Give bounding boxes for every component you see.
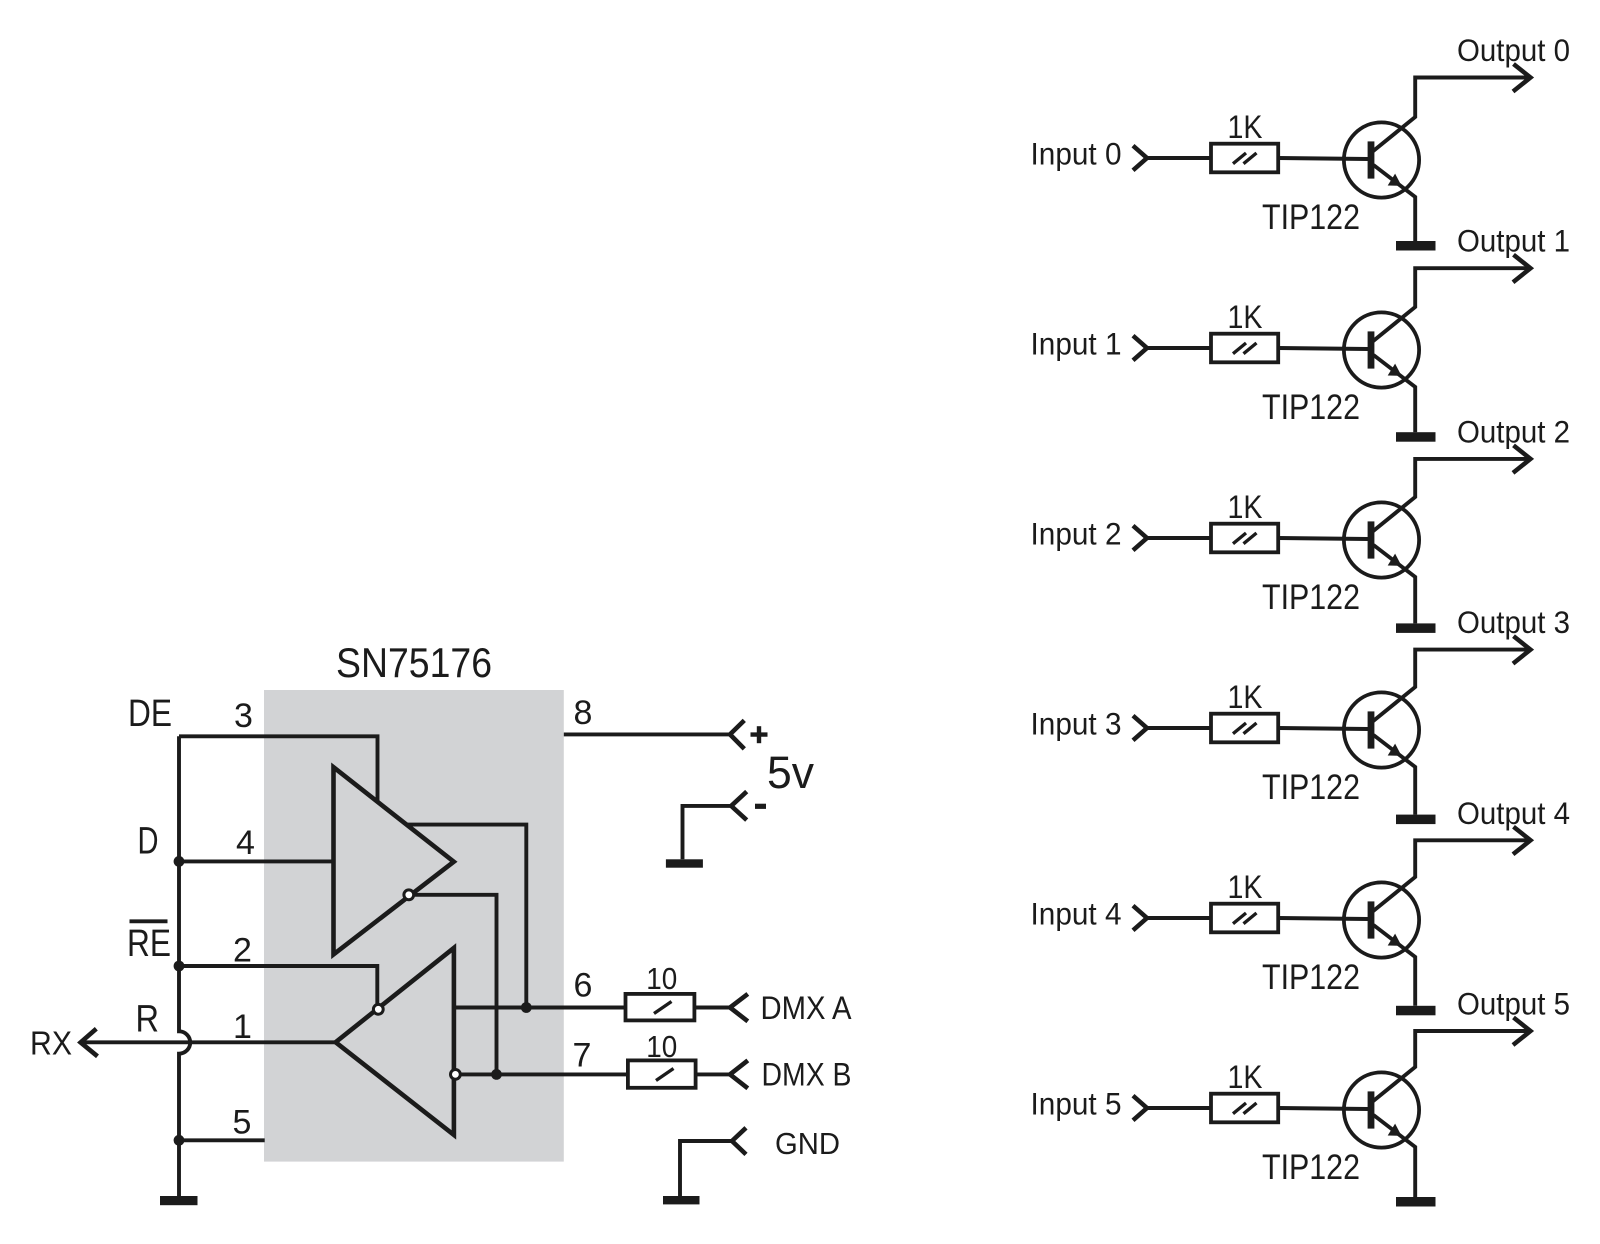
svg-text:Output 0: Output 0 xyxy=(1457,32,1570,68)
svg-text:Input 2: Input 2 xyxy=(1031,515,1122,551)
svg-text:Output 3: Output 3 xyxy=(1457,604,1570,640)
svg-text:5: 5 xyxy=(233,1103,252,1141)
svg-text:Output 4: Output 4 xyxy=(1457,795,1570,831)
svg-text:TIP122: TIP122 xyxy=(1262,578,1360,617)
svg-text:TIP122: TIP122 xyxy=(1262,958,1360,997)
svg-text:5v: 5v xyxy=(767,747,814,798)
svg-text:TIP122: TIP122 xyxy=(1262,198,1360,237)
svg-text:Output 5: Output 5 xyxy=(1457,986,1570,1022)
svg-text:Input 3: Input 3 xyxy=(1031,705,1122,741)
svg-text:Input 0: Input 0 xyxy=(1031,135,1122,171)
svg-text:1: 1 xyxy=(233,1008,252,1046)
svg-text:RE: RE xyxy=(127,923,171,965)
svg-text:Input 4: Input 4 xyxy=(1031,895,1122,931)
svg-text:Output 1: Output 1 xyxy=(1457,223,1570,259)
svg-text:SN75176: SN75176 xyxy=(336,639,492,686)
svg-text:RX: RX xyxy=(30,1024,72,1061)
svg-text:4: 4 xyxy=(236,824,255,862)
svg-text:8: 8 xyxy=(574,694,593,732)
svg-text:TIP122: TIP122 xyxy=(1262,768,1360,807)
svg-text:1K: 1K xyxy=(1228,1059,1263,1095)
svg-text:7: 7 xyxy=(573,1036,592,1074)
svg-text:1K: 1K xyxy=(1228,679,1263,715)
svg-text:Input 5: Input 5 xyxy=(1031,1085,1122,1121)
svg-text:TIP122: TIP122 xyxy=(1262,1148,1360,1187)
svg-text:TIP122: TIP122 xyxy=(1262,388,1360,427)
svg-text:DMX A: DMX A xyxy=(761,990,853,1026)
svg-text:10: 10 xyxy=(646,961,677,996)
svg-text:R: R xyxy=(136,999,160,1041)
svg-text:1K: 1K xyxy=(1228,109,1263,145)
svg-text:GND: GND xyxy=(775,1127,840,1161)
svg-text:Input 1: Input 1 xyxy=(1031,325,1122,361)
svg-text:Output 2: Output 2 xyxy=(1457,413,1570,449)
svg-text:3: 3 xyxy=(234,697,253,735)
svg-text:DMX B: DMX B xyxy=(762,1056,852,1092)
svg-text:DE: DE xyxy=(128,693,172,735)
svg-text:1K: 1K xyxy=(1228,489,1263,525)
svg-text:2: 2 xyxy=(233,932,252,970)
svg-text:6: 6 xyxy=(574,966,593,1004)
svg-text:1K: 1K xyxy=(1228,299,1263,335)
svg-text:D: D xyxy=(138,821,159,863)
svg-text:10: 10 xyxy=(646,1029,677,1064)
svg-text:1K: 1K xyxy=(1228,869,1263,905)
